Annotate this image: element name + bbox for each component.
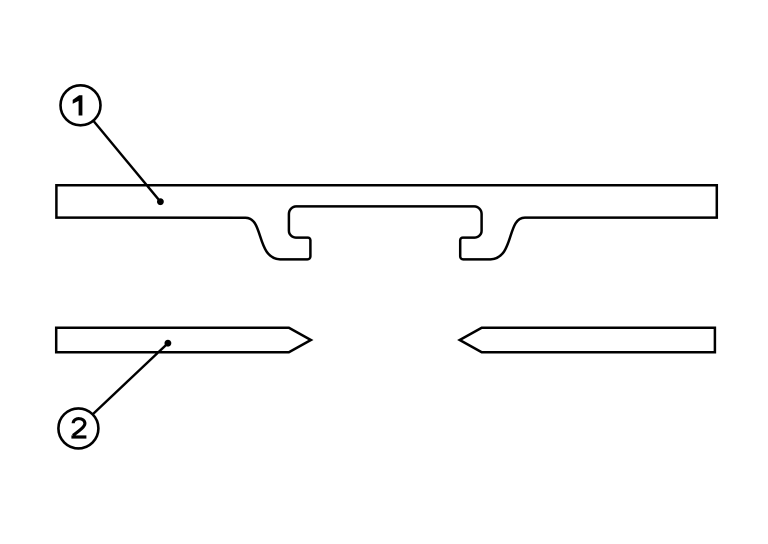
left blade (part 2): [56, 328, 311, 352]
right blade (part 2): [460, 328, 715, 352]
callout circle 2: [58, 408, 98, 448]
label 2: [71, 419, 86, 437]
rail profile (part 1): [56, 185, 716, 259]
leader line 2: [93, 343, 168, 414]
label 1: [73, 95, 83, 115]
callout circle 1: [61, 85, 101, 125]
leader dot 2: [165, 340, 172, 347]
leader dot 1: [157, 198, 164, 205]
leader line 1: [93, 120, 161, 202]
